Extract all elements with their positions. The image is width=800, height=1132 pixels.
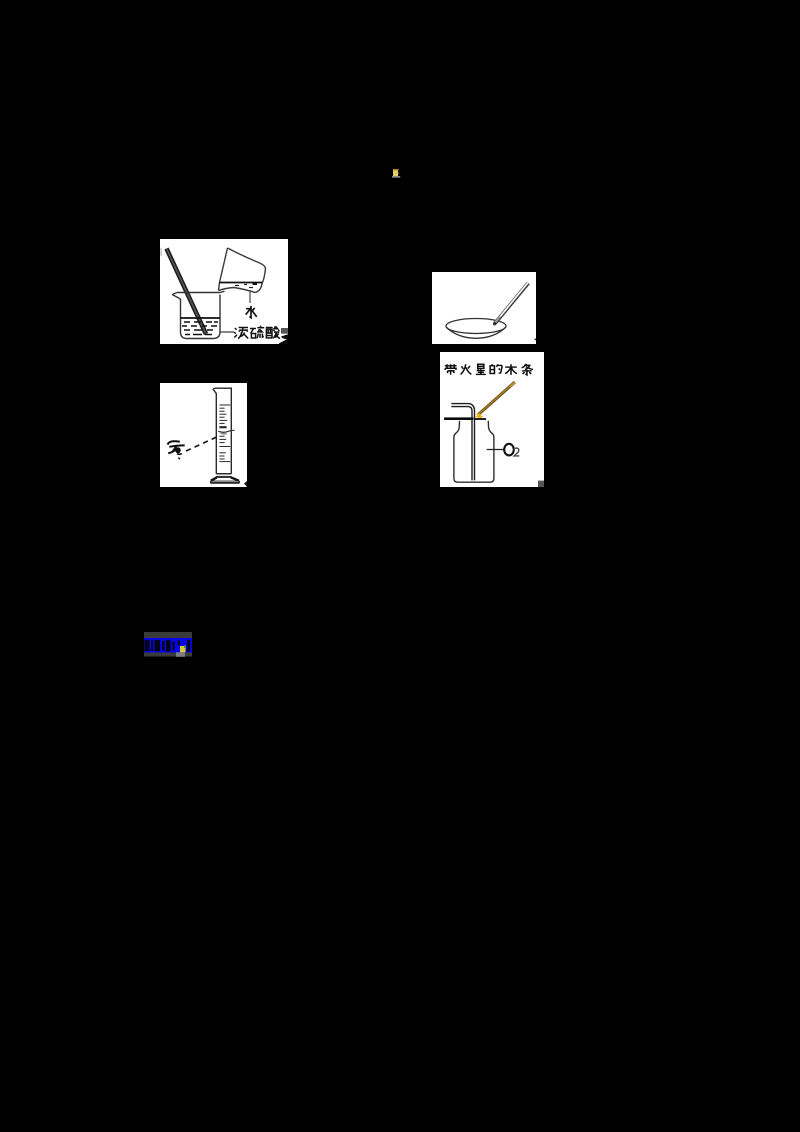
water line in pouring beaker (220, 282, 263, 284)
label SHUI (water) (246, 306, 257, 318)
delivery tube (451, 404, 474, 481)
pouring beaker with water (219, 248, 266, 293)
graduations (219, 405, 230, 462)
acid dashes (182, 322, 218, 335)
label SUAN (acid) (266, 326, 280, 338)
sight dashed line (186, 436, 218, 451)
O2 label drawn as shapes (504, 444, 514, 456)
label NONG (concentrated) (234, 328, 248, 339)
blue selected text fragment (144, 632, 192, 657)
dai (445, 364, 457, 374)
acid surface line (181, 317, 221, 319)
gas bottle (454, 421, 494, 482)
BOX 2 : evaporating dish with glass rod (432, 272, 536, 344)
BOX 1 : dilution of concentrated sulfuric acid (160, 239, 288, 344)
wooden splint (479, 382, 515, 414)
de (490, 364, 502, 373)
label: dai huo xing de mu tiao (glowing splint) (445, 364, 533, 375)
gray selection handle right edge (281, 328, 288, 334)
beaker (receiving) (172, 291, 224, 338)
pointer line to water label (249, 291, 251, 303)
BOX 4 : O2 gas bottle with glowing splint (440, 352, 544, 487)
glass rod (495, 283, 528, 323)
cylinder outline (213, 388, 231, 474)
label LIU (sulfur) (250, 326, 264, 339)
mu (505, 364, 517, 375)
liquid meniscus (218, 431, 230, 433)
pointer line to acid label (220, 331, 234, 333)
evaporating dish (446, 319, 506, 334)
glass rod (167, 249, 207, 335)
huo (461, 364, 472, 374)
ground glass plate (444, 417, 473, 420)
spark (475, 413, 483, 421)
edge tick artifact (535, 339, 537, 341)
base (216, 473, 231, 475)
small yellow inline icon top (392, 166, 402, 177)
BOX 3 : graduated cylinder with eye sight line (160, 383, 247, 487)
xing (476, 364, 486, 374)
O2 pointer (487, 449, 504, 451)
eye (168, 441, 185, 453)
left-edge gray handle artifact (160, 248, 161, 256)
tiao (522, 364, 533, 375)
gray selection handle (538, 481, 544, 487)
